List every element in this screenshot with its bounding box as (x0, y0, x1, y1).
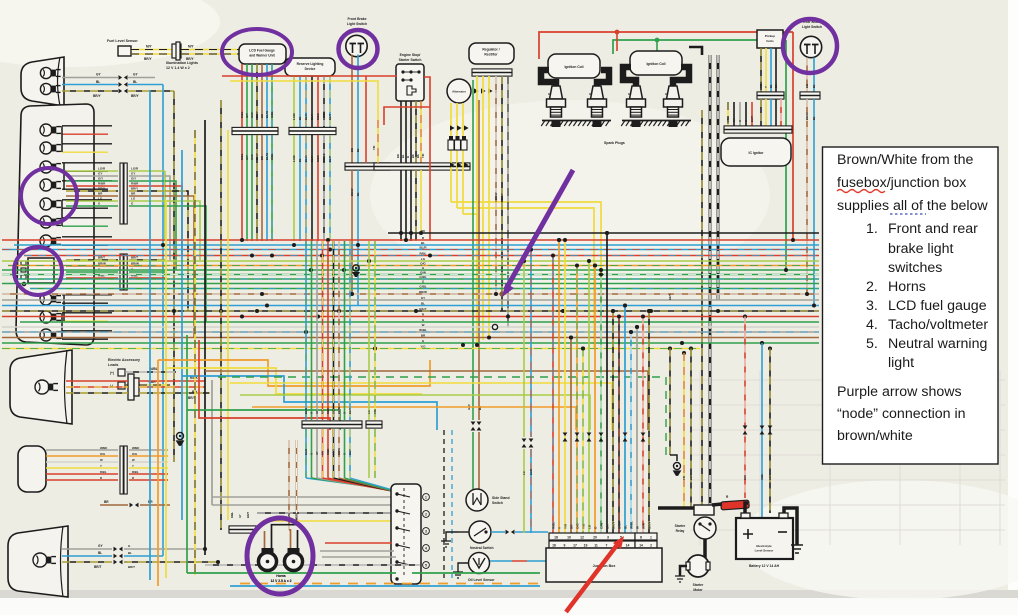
headlight bulb 1 (40, 67, 60, 78)
wire G ignition sw upper (343, 241, 347, 420)
wire BL to junction box (623, 304, 628, 534)
ignition switch contact label 2 (423, 511, 430, 518)
wire engine stop 3 (410, 101, 412, 163)
svg-text:BR/W: BR/W (337, 448, 341, 455)
ignition switch contact label 5 (423, 562, 430, 569)
wire LG panel (66, 197, 165, 202)
svg-text:Oil Level Sensor: Oil Level Sensor (468, 578, 495, 582)
engine stop connector bar (374, 163, 470, 170)
wire engine stop 2 (405, 101, 407, 163)
wire GY tail2 (62, 544, 205, 551)
svg-text:20: 20 (593, 536, 597, 540)
reserve connector bar (289, 127, 336, 134)
svg-text:LG: LG (98, 197, 103, 201)
wire R feed to switch (222, 75, 397, 77)
svg-text:#4: #4 (628, 92, 632, 96)
svg-text:Motor: Motor (693, 588, 703, 592)
svg-text:brake light: brake light (888, 241, 954, 257)
svg-text:BR/Y: BR/Y (648, 521, 652, 529)
svg-text:14: 14 (639, 544, 643, 548)
svg-text:2: 2 (425, 513, 427, 517)
left vertical wire 2 (157, 360, 159, 586)
svg-text:Light Switch: Light Switch (347, 22, 367, 26)
wire G panel (66, 202, 165, 207)
left vertical wire 8 (211, 380, 213, 505)
panel lamp 9 (40, 311, 61, 323)
svg-text:Y/G: Y/G (582, 523, 586, 529)
junction box terminal strip C (635, 533, 657, 540)
wire R/BL gauge upper (240, 64, 244, 128)
wire Y regulator 1 (476, 76, 478, 232)
oil level label (468, 578, 495, 582)
wire BL front brake (356, 55, 360, 164)
engine stop starter switch (396, 64, 424, 101)
svg-text:BR/W: BR/W (337, 407, 341, 414)
svg-text:11: 11 (594, 544, 598, 548)
svg-text:R/BL: R/BL (420, 252, 427, 256)
pickup connector bar (757, 92, 784, 99)
svg-text:G: G (310, 412, 314, 414)
svg-text:Horns: Horns (276, 574, 286, 578)
svg-text:W/BK: W/BK (100, 446, 107, 450)
svg-text:R/BL: R/BL (230, 512, 234, 518)
svg-text:R/BR: R/BR (326, 449, 330, 455)
wire Y/R engine stop (420, 101, 422, 163)
svg-text:G/W: G/W (600, 523, 604, 529)
panel lamp 1 leads (62, 126, 112, 134)
horns label (271, 574, 292, 583)
svg-text:R/Y: R/Y (321, 409, 325, 414)
wire G/BL to battery (760, 343, 765, 518)
svg-text:BK/R: BK/R (618, 521, 622, 529)
wire engine stop lower 2 (405, 170, 407, 241)
accessory lead (-) (110, 380, 170, 389)
bus wire W/BL (2, 331, 819, 333)
horn 2 body overlay (285, 553, 303, 571)
spark plug #2 (547, 86, 566, 127)
svg-text:1: 1 (650, 536, 652, 540)
regulator connector bar (472, 69, 512, 76)
svg-text:BL: BL (98, 551, 102, 555)
svg-text:Front and rear: Front and rear (888, 221, 978, 237)
panel lamp 10 leads (62, 331, 112, 339)
svg-text:LG/R: LG/R (131, 167, 139, 171)
svg-text:9: 9 (564, 544, 566, 548)
headlight connector GY (119, 75, 128, 80)
svg-text:G/W: G/W (250, 154, 254, 160)
ignition coil 1 (548, 54, 600, 78)
purple circle rear brake switch (783, 19, 837, 73)
svg-text:G/Y: G/Y (98, 177, 103, 181)
svg-text:BL: BL (133, 80, 137, 84)
svg-text:14: 14 (626, 544, 630, 548)
wire BR/W horn feed 2 (295, 440, 299, 525)
panel connector bar 2 (120, 254, 127, 290)
svg-text:Y: Y (100, 464, 102, 468)
svg-text:12: 12 (580, 536, 584, 540)
panel lamp 4 (40, 179, 61, 191)
coil 1 bracket (541, 70, 609, 86)
starter relay label (675, 524, 686, 533)
purple circle LCD fuel gauge (222, 29, 292, 75)
wire O to junction box (593, 264, 598, 534)
svg-text:BR: BR (260, 114, 264, 118)
wire Y regulator 3 (488, 76, 490, 232)
svg-text:BL/G: BL/G (304, 408, 308, 414)
svg-text:LCD Fuel Gauge: LCD Fuel Gauge (249, 49, 275, 53)
svg-text:Horns: Horns (888, 279, 926, 295)
svg-text:G/BL: G/BL (270, 111, 274, 118)
svg-text:W: W (132, 458, 135, 462)
wire LG/R panel (66, 167, 165, 172)
svg-text:BL/G: BL/G (304, 449, 308, 455)
wire GY headlight (62, 73, 138, 78)
left vertical wire 6 (194, 130, 196, 575)
rear brake connector bar (800, 92, 820, 99)
open node W line (492, 324, 497, 329)
wire BR/W ignition sw lower (337, 429, 399, 493)
wire W/BK regulator (507, 76, 509, 327)
headlight connector BL (119, 82, 128, 87)
wire BL front brake lower (356, 170, 360, 306)
svg-text:BR/Y: BR/Y (768, 474, 772, 480)
wire GY bottom 2 (322, 556, 396, 558)
svg-text:BL/W: BL/W (265, 110, 269, 118)
wire R license (46, 476, 118, 480)
horn 2 (285, 548, 303, 571)
junction box terminal strip D (635, 541, 657, 548)
wire G/Y stepped feeder (218, 377, 666, 455)
purple circle panel lamps (21, 168, 77, 224)
svg-text:R: R (406, 156, 410, 158)
svg-text:Y: Y (132, 464, 134, 468)
svg-text:7: 7 (606, 544, 608, 548)
wire LG to junction box (587, 259, 592, 533)
wire labels engine stop (396, 154, 425, 158)
svg-text:Rectifier: Rectifier (484, 53, 498, 57)
rear brake light switch (800, 36, 821, 57)
license lamp shell (18, 446, 46, 492)
spark plug #1 (664, 86, 683, 127)
wire BL reserve lower (298, 135, 302, 241)
svg-text:#2: #2 (548, 92, 552, 96)
wire W/R to fuse (743, 317, 748, 499)
junction box body (546, 548, 662, 582)
svg-text:BK: BK (411, 154, 415, 158)
alternator arrows row3 (450, 162, 469, 167)
svg-text:Front Brake: Front Brake (347, 17, 366, 21)
wire R/BL gauge lower (240, 135, 244, 241)
wire engine stop 1 (400, 101, 402, 163)
bus wire G/W (2, 274, 819, 276)
wire BK to ignitor (732, 102, 736, 126)
svg-text:4: 4 (425, 547, 427, 551)
wire elbow 4 to bus (165, 186, 182, 256)
svg-text:5.: 5. (866, 336, 878, 352)
wire R bottom (325, 542, 392, 544)
wire BR/Y panel (66, 187, 165, 192)
svg-text:M/BL: M/BL (150, 367, 158, 371)
fuel level sensor box (118, 46, 131, 56)
spark plug ground left (541, 121, 611, 127)
svg-text:G: G (738, 120, 742, 122)
wire BK/Y right down (668, 294, 677, 461)
bus wire O/G (8, 265, 819, 267)
svg-text:BR/Y: BR/Y (93, 94, 101, 98)
ground mid-left (176, 432, 185, 445)
bus wire W (2, 326, 819, 328)
wire elbow 7 to bus (165, 201, 200, 261)
wire O stepped feeder (252, 407, 576, 430)
svg-text:G: G (343, 453, 347, 455)
panel lamp link wires (62, 126, 64, 339)
wire elbow 1 to bus (164, 171, 166, 240)
svg-text:3: 3 (425, 530, 427, 534)
left vertical wire 5 (186, 335, 188, 573)
svg-text:R/BL: R/BL (100, 470, 107, 474)
wire Y license (46, 464, 118, 468)
svg-text:BR/T: BR/T (94, 565, 101, 569)
svg-text:“node” connection in: “node” connection in (837, 406, 966, 422)
svg-text:GY: GY (421, 296, 425, 300)
svg-text:Spark Plugs: Spark Plugs (604, 141, 625, 145)
svg-text:BL/R: BL/R (420, 246, 428, 250)
svg-text:LG: LG (131, 197, 136, 201)
wire BR/BK reserve lower (322, 135, 326, 241)
panel lamp 10 (40, 329, 61, 341)
svg-text:2.: 2. (866, 279, 878, 295)
bus wire G (20, 321, 819, 323)
annotation text box (823, 147, 999, 464)
svg-text:BR/Y: BR/Y (332, 408, 336, 414)
wire BK pickup lower (775, 99, 777, 126)
svg-text:1: 1 (425, 496, 427, 500)
svg-text:BU/Y: BU/Y (750, 116, 754, 122)
tail lamp 1 bulb (35, 380, 58, 394)
svg-text:supplies all of the below: supplies all of the below (837, 198, 988, 214)
wire elbow 8 to bus (165, 206, 206, 322)
svg-text:W/R: W/R (642, 522, 646, 529)
svg-text:M/Y: M/Y (146, 45, 153, 49)
svg-text:LG: LG (421, 257, 426, 261)
svg-text:BL: BL (769, 84, 773, 88)
battery box (736, 518, 793, 559)
svg-text:BR/Y: BR/Y (131, 187, 138, 191)
svg-text:Electrolyte: Electrolyte (756, 544, 772, 548)
wire W/BK license (46, 446, 118, 450)
svg-text:BL: BL (356, 192, 360, 196)
wire BL/W gauge upper (265, 64, 269, 128)
svg-text:Level Sensor: Level Sensor (755, 549, 775, 553)
junction dot red top (615, 30, 620, 35)
svg-text:Regulator /: Regulator / (482, 48, 499, 52)
svg-text:Alternator: Alternator (452, 90, 467, 94)
wire R coil2 link (616, 32, 618, 51)
wire BK/Y to junction box (611, 309, 616, 533)
battery cable left (658, 506, 694, 510)
svg-text:BL: BL (421, 241, 425, 245)
wire engine stop lower 3 (410, 170, 412, 241)
svg-text:BK/Y: BK/Y (255, 153, 259, 160)
wire BK thick 1 (709, 55, 712, 505)
svg-text:Pickup: Pickup (765, 34, 775, 38)
wire GY ignition sw lower (315, 429, 377, 488)
svg-text:BR/T: BR/T (246, 512, 250, 518)
wire BR/Y to battery (768, 349, 773, 514)
LG YG connector (366, 241, 382, 478)
neutral switch label (470, 546, 494, 550)
ignition dashed link 2 (451, 430, 453, 578)
svg-text:R/BK: R/BK (316, 155, 320, 162)
wire Y license cont (129, 464, 168, 468)
svg-text:W: W (636, 526, 640, 529)
svg-text:BL: BL (812, 84, 816, 88)
svg-text:Illumination Lights: Illumination Lights (166, 61, 198, 65)
ghost grid (scan bleed) (690, 370, 1005, 545)
svg-text:BR/BK: BR/BK (322, 111, 326, 120)
svg-text:W/BL: W/BL (419, 328, 427, 332)
junction dot green top (655, 38, 660, 43)
coil 2 bracket (623, 67, 689, 86)
wire BL vertical x163 (162, 85, 164, 557)
wire BR/W ignition sw upper (337, 241, 341, 420)
engine stop switch label (399, 53, 422, 62)
wire Y ignition horizontal (262, 520, 391, 522)
ignition connector bar (302, 421, 362, 428)
svg-text:BL: BL (421, 302, 425, 306)
wire G/W to junction box (599, 273, 604, 534)
horn 1 (259, 548, 277, 571)
wire BL/W gauge lower (265, 135, 269, 241)
wire Y alternator 3 (463, 103, 477, 232)
panel lamp 7 leads (62, 237, 112, 245)
front brake switch label (347, 17, 367, 26)
svg-text:BL: BL (298, 158, 302, 162)
purple arrow to BR/W node (502, 170, 573, 297)
ignition switch contact label 1 (423, 494, 430, 501)
wire R coil feed top (539, 32, 793, 240)
tail lamp 1 stem (128, 374, 139, 400)
headlight shell (21, 57, 64, 106)
wire R/BK reserve upper (316, 76, 320, 128)
svg-text:G/BL: G/BL (760, 473, 764, 480)
wire BR gauge lower (260, 135, 264, 241)
svg-text:16: 16 (552, 544, 556, 548)
wire LG/R reserve upper (292, 76, 296, 128)
svg-text:W: W (422, 323, 425, 327)
oil level lead (458, 563, 468, 572)
wire elbow 6 to bus (165, 196, 194, 338)
wire BK thick 2 (717, 55, 720, 300)
wire BL tail2 (62, 551, 163, 558)
wire Y regulator 2 (482, 76, 484, 232)
spark plug ground right (621, 121, 691, 127)
wire BR/W regulator (494, 76, 498, 294)
svg-text:BK: BK (774, 84, 778, 88)
wire BL/Y reserve lower (310, 135, 314, 241)
svg-text:3.: 3. (866, 298, 878, 314)
horns label overlay (271, 574, 292, 583)
spark plug #4 (627, 86, 646, 127)
panel lamp 8 leads (62, 295, 112, 303)
panel lamp 8 (40, 293, 61, 305)
svg-text:Y/R: Y/R (564, 523, 568, 529)
svg-text:M/Y: M/Y (188, 45, 195, 49)
bus wire G (2, 342, 819, 344)
wire Y/BK to ignitor (726, 102, 730, 126)
svg-text:BR: BR (350, 148, 354, 152)
wire BK/Y regulator (500, 76, 504, 311)
bus wire BL (14, 244, 819, 246)
bus wire R/BL (24, 255, 819, 257)
svg-text:R/BL: R/BL (240, 153, 244, 160)
svg-text:18: 18 (554, 536, 558, 540)
wire engine stop lower 4 (415, 170, 417, 241)
left vertical wire 10 (227, 130, 229, 520)
green elbow mid (187, 410, 340, 430)
wire M/Y fuel sensor (131, 45, 195, 50)
svg-text:LG/R: LG/R (98, 167, 106, 171)
wire BK horn 1 link (272, 525, 297, 548)
wire Y stepped feeder (230, 383, 612, 430)
wire BL/G ignition sw lower (304, 429, 366, 486)
svg-text:Tacho/voltmeter: Tacho/voltmeter (888, 317, 988, 333)
svg-text:W/R: W/R (743, 475, 747, 480)
wire LG stepped feeder (240, 395, 590, 430)
wire G/W to side stand (472, 432, 474, 489)
svg-text:Y/R: Y/R (682, 476, 686, 480)
wire elbow 5 to bus (165, 191, 188, 311)
svg-text:Electric Accessory: Electric Accessory (108, 358, 140, 362)
svg-text:BR: BR (570, 524, 574, 529)
svg-text:R/Y: R/Y (321, 450, 325, 455)
wire BL pickup (769, 48, 773, 92)
oil level wire (490, 560, 548, 562)
wire Y feed to switch (230, 81, 378, 163)
starter motor (686, 555, 710, 577)
bus wire BR (2, 337, 819, 339)
svg-text:W/BK: W/BK (132, 446, 139, 450)
svg-text:LG/R: LG/R (292, 113, 296, 120)
wire LG mid drop (522, 259, 527, 533)
svg-text:19: 19 (584, 544, 588, 548)
svg-text:Y: Y (764, 86, 768, 88)
wire G/W gauge upper (250, 64, 254, 128)
svg-text:#1: #1 (665, 92, 669, 96)
battery cable relay-fuse (712, 503, 748, 513)
svg-text:Purple arrow shows: Purple arrow shows (837, 384, 962, 400)
svg-text:4.: 4. (866, 317, 878, 333)
wire elbow 3 to bus (165, 181, 176, 270)
svg-text:BK: BK (606, 524, 610, 529)
svg-text:Light Switch: Light Switch (802, 25, 822, 29)
wire BR horn 2 link (289, 530, 291, 548)
svg-text:G/BL: G/BL (419, 285, 426, 289)
wire BR horn 1 (264, 531, 266, 548)
svg-text:BR/BK: BR/BK (322, 153, 326, 162)
svg-text:Brown/White from the: Brown/White from the (837, 152, 974, 168)
battery ground cable (784, 508, 797, 545)
wire GY bottom 1 (320, 550, 394, 552)
wire BU/Y ignitor feed (701, 110, 703, 505)
starter relay (694, 505, 716, 539)
bus wire GY (2, 299, 819, 301)
svg-text:BR/Y: BR/Y (98, 187, 105, 191)
wire G ignition sw upper (310, 241, 314, 420)
starter motor label (693, 583, 704, 592)
main fuse (721, 495, 749, 510)
svg-text:BK: BK (416, 154, 420, 158)
